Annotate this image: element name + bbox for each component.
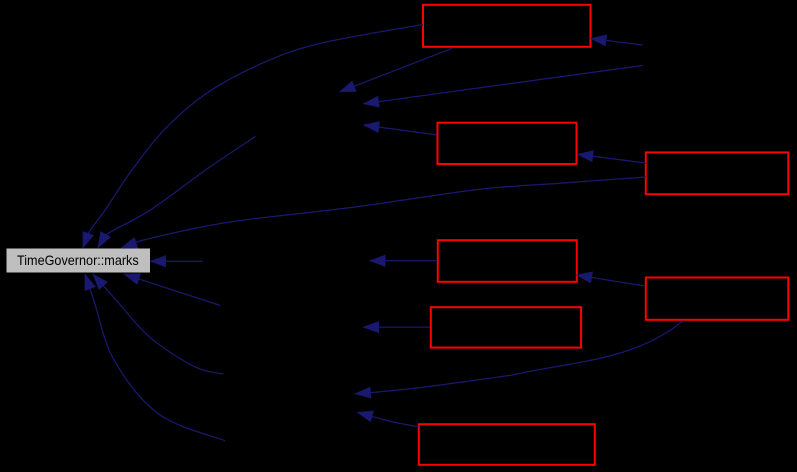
edge caller-box-1 -> hidden-node-1: [340, 48, 453, 92]
edge caller-box-4 -> hidden-node-2: [370, 260, 437, 262]
edge hidden-node-6 -> caller-box-1: [591, 39, 643, 46]
edge hidden-node-5 -> TimeGovernor::marks: [85, 274, 225, 441]
edge hidden-node-4 -> TimeGovernor::marks: [93, 274, 224, 374]
edge hidden-node-2 -> TimeGovernor::marks: [150, 260, 202, 262]
right box B5 (B): [646, 278, 789, 320]
right box B3 (A): [646, 152, 789, 194]
svg-text:TimeGovernor::marks: TimeGovernor::marks: [17, 252, 139, 268]
edge bottom-box-7 -> hidden-node-5: [357, 412, 419, 426]
edge right-box-A -> caller-box-2: [578, 154, 646, 163]
caller box B2: [438, 123, 577, 164]
central node TimeGovernor::marks: [7, 249, 151, 273]
edge caller-box-2 -> hidden-node-1: [364, 125, 437, 135]
edge caller-box-1 -> TimeGovernor::marks: [83, 25, 423, 248]
caller box B6: [431, 307, 581, 347]
edge right-box-A -> TimeGovernor::marks: [122, 177, 647, 248]
edge right-box-B -> caller-box-4: [577, 275, 646, 286]
caller box B4: [438, 240, 577, 282]
edge hidden-node-3 -> TimeGovernor::marks: [124, 274, 220, 305]
edge hidden-node-6 -> hidden-node-1: [363, 65, 643, 103]
edge hidden-node-1 -> TimeGovernor::marks: [98, 136, 256, 247]
bottom box B7: [419, 424, 595, 465]
caller box B1: [423, 5, 591, 47]
edge caller-box-6 -> hidden-node-3: [363, 326, 430, 328]
edge right-box-B -> hidden-node-4: [355, 320, 683, 393]
